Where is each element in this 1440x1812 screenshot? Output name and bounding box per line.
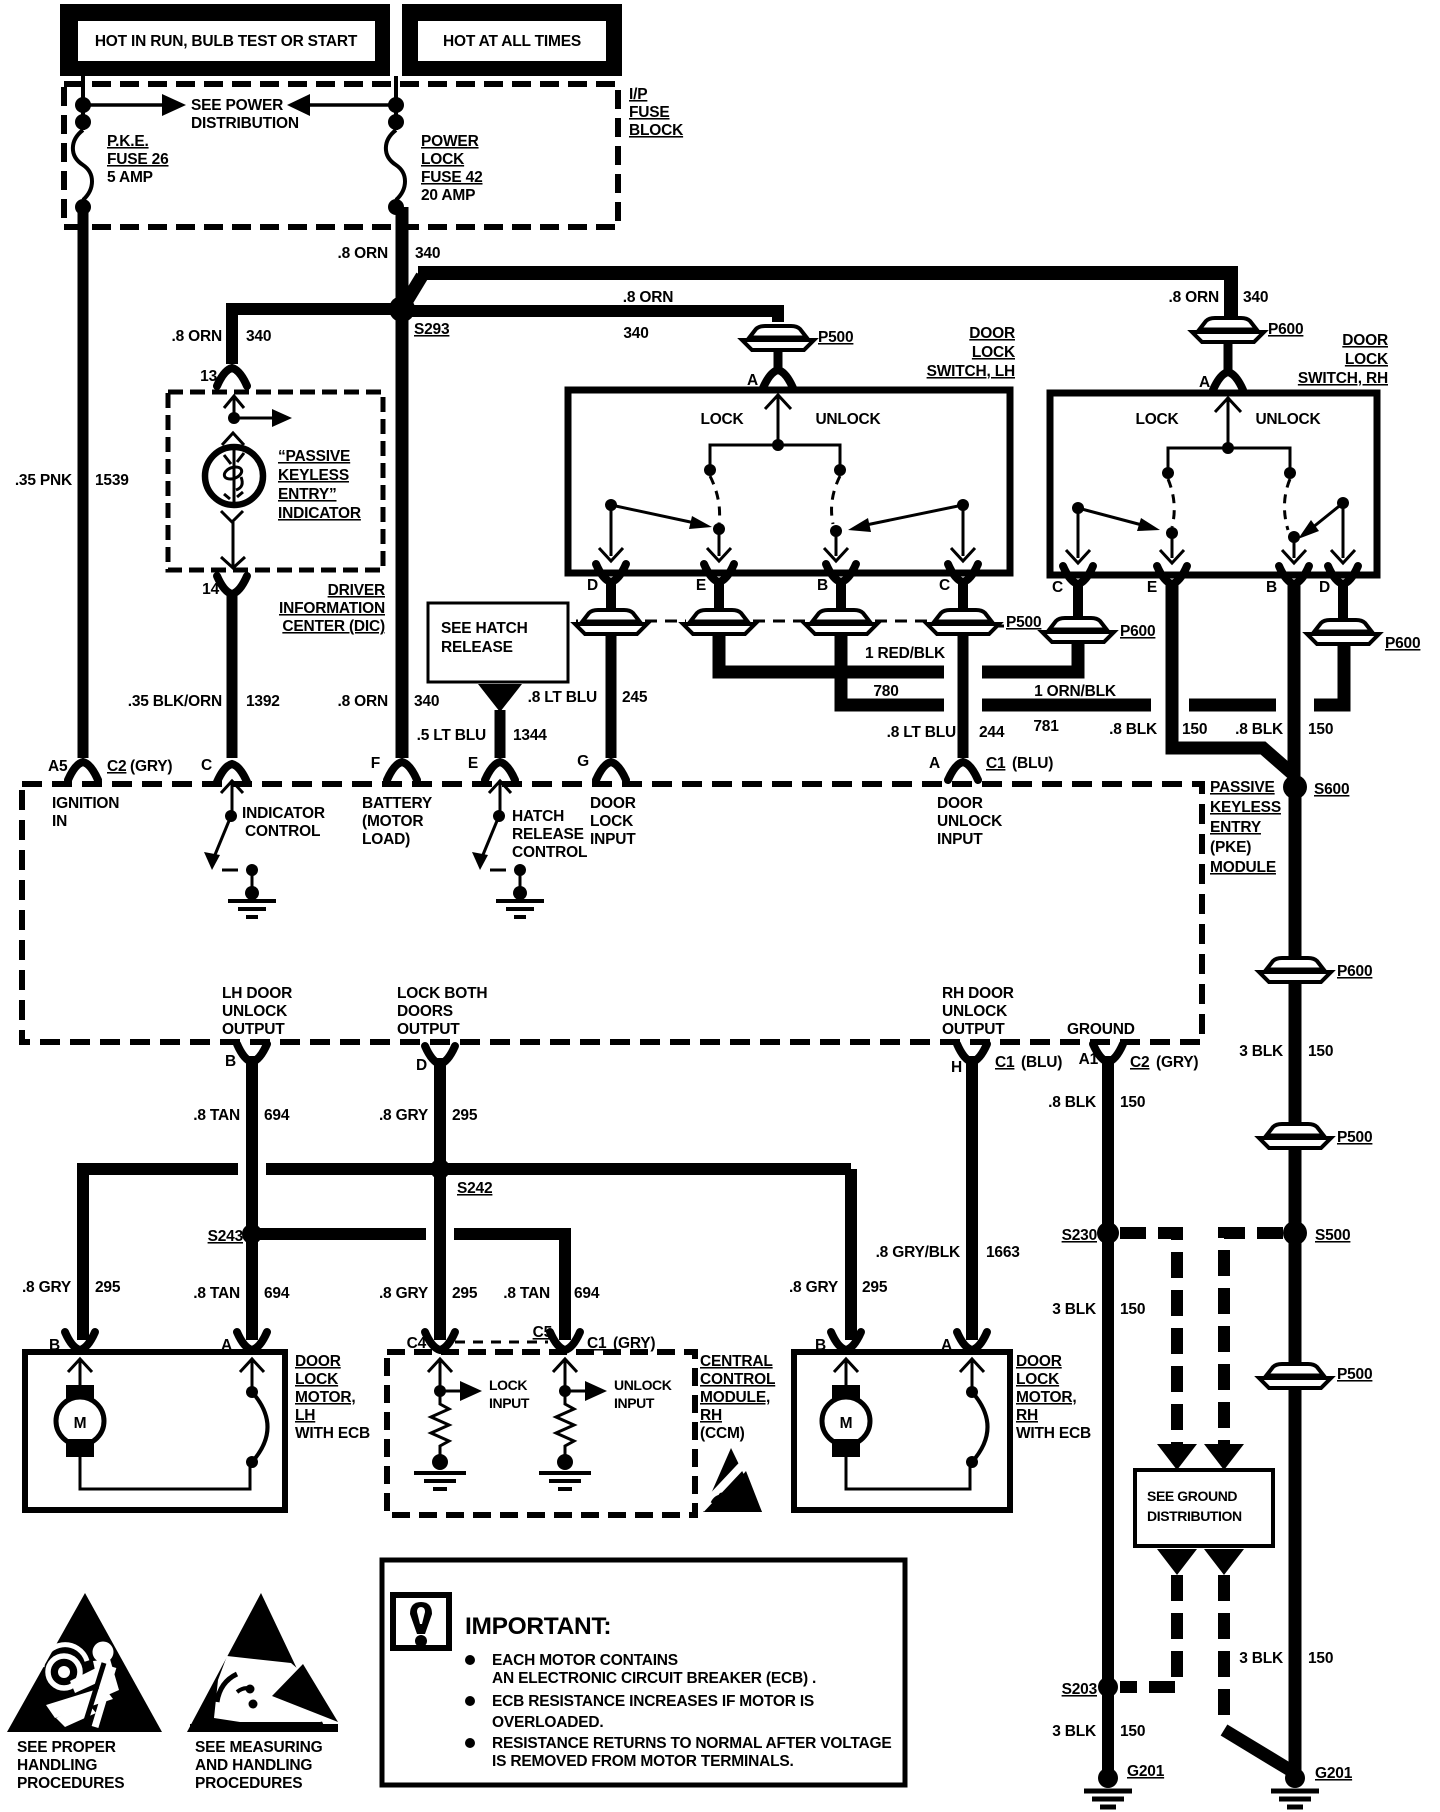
svg-text:B: B bbox=[815, 1337, 826, 1354]
contact dot lower lock RH bbox=[1166, 527, 1178, 539]
label .8 GRY 295 upper bbox=[379, 1107, 478, 1124]
label LOCK INPUT bbox=[489, 1377, 530, 1411]
header box HOT IN RUN bbox=[60, 4, 390, 76]
svg-text:.35 PNK: .35 PNK bbox=[15, 472, 73, 489]
wire C of LH down to PKE A (.8 LT BLU 244) bbox=[958, 632, 969, 758]
RH switch stem with up arrow bbox=[1215, 397, 1241, 448]
svg-text:.8 ORN: .8 ORN bbox=[338, 693, 388, 710]
svg-text:C: C bbox=[939, 577, 950, 594]
node dot bbox=[75, 114, 91, 130]
svg-text:S600: S600 bbox=[1314, 781, 1349, 798]
terminal A of LH motor bbox=[237, 1332, 267, 1350]
svg-text:IS REMOVED FROM MOTOR TERMINAL: IS REMOVED FROM MOTOR TERMINALS. bbox=[492, 1753, 794, 1770]
wire branch from S293 left to DIC terminal 13 bbox=[232, 309, 396, 364]
arrow from C node to lock contact RH bbox=[1078, 508, 1160, 531]
svg-text:.8 GRY: .8 GRY bbox=[22, 1279, 72, 1296]
svg-text:LOCK: LOCK bbox=[489, 1377, 527, 1393]
terminal B of LH switch bbox=[826, 564, 856, 582]
node dot C side RH bbox=[1072, 502, 1084, 514]
terminal B of RH motor bbox=[831, 1332, 861, 1350]
label DOOR LOCK MOTOR, RH WITH ECB bbox=[1016, 1353, 1091, 1442]
svg-text:13: 13 bbox=[200, 368, 217, 385]
svg-text:MOTOR,: MOTOR, bbox=[295, 1389, 356, 1406]
svg-text:INFORMATION: INFORMATION bbox=[279, 600, 385, 617]
svg-text:OVERLOADED.: OVERLOADED. bbox=[492, 1714, 603, 1731]
svg-text:.8 TAN: .8 TAN bbox=[503, 1285, 550, 1302]
label CENTRAL CONTROL MODULE, RH (CCM) bbox=[700, 1353, 775, 1442]
label .5 LT BLU 1344 bbox=[417, 727, 548, 744]
svg-text:1344: 1344 bbox=[513, 727, 547, 744]
svg-text:DISTRIBUTION: DISTRIBUTION bbox=[191, 115, 299, 132]
IMPORTANT box bbox=[382, 1560, 905, 1785]
svg-text:ENTRY: ENTRY bbox=[1210, 819, 1262, 836]
wire E of LH to 780 run bbox=[719, 632, 944, 672]
svg-text:295: 295 bbox=[95, 1279, 121, 1296]
svg-text:M: M bbox=[840, 1415, 853, 1432]
label .8 ORN 340 above S293 bbox=[338, 245, 441, 262]
svg-text:RELEASE: RELEASE bbox=[441, 639, 513, 656]
svg-text:.8 BLK: .8 BLK bbox=[1048, 1094, 1097, 1111]
wire D RH to connector bbox=[1338, 582, 1348, 618]
svg-text:AND HANDLING: AND HANDLING bbox=[195, 1757, 312, 1774]
svg-text:5 AMP: 5 AMP bbox=[107, 169, 153, 186]
svg-text:694: 694 bbox=[574, 1285, 600, 1302]
terminal A of LH switch bbox=[763, 370, 793, 388]
wire H PKE down to RH motor A bbox=[966, 1056, 978, 1340]
label .8 ORN 340 left branch bbox=[172, 328, 272, 345]
node dot D side bbox=[605, 499, 617, 511]
svg-text:.8 ORN: .8 ORN bbox=[172, 328, 222, 345]
wire .8 ORN 340 from fuse 42 down to S293 bbox=[396, 207, 409, 313]
bullet 2 bbox=[465, 1696, 475, 1706]
svg-text:A: A bbox=[221, 1337, 232, 1354]
ESD triangle measuring handling bbox=[187, 1593, 338, 1732]
label .8 GRY/BLK 1663 bbox=[876, 1244, 1021, 1261]
dashed blade lock bbox=[710, 476, 720, 524]
ground CCM lock bbox=[414, 1454, 466, 1489]
svg-text:CONTROL: CONTROL bbox=[512, 844, 587, 861]
ground internal at hatch release control bbox=[496, 886, 544, 917]
svg-text:(CCM): (CCM) bbox=[700, 1425, 745, 1442]
svg-text:F: F bbox=[371, 755, 380, 772]
terminal C5 of CCM bbox=[550, 1332, 580, 1350]
wire branch from S293 up-right to top run bbox=[402, 276, 422, 309]
svg-text:P500: P500 bbox=[1337, 1366, 1372, 1383]
contact dot lock bbox=[704, 464, 716, 476]
label BATTERY (MOTOR LOAD) bbox=[362, 795, 433, 848]
wire D node down with arrow bbox=[599, 505, 623, 561]
svg-text:.8 LT BLU: .8 LT BLU bbox=[887, 724, 956, 741]
arrow from D node to unlock contact RH bbox=[1298, 503, 1343, 539]
I/P fuse block dashed box bbox=[64, 84, 618, 227]
wire A1 ground down left chain bbox=[1102, 1056, 1114, 1778]
svg-text:3 BLK: 3 BLK bbox=[1052, 1301, 1097, 1318]
wire bulb to terminal 14 bbox=[232, 522, 235, 568]
svg-text:OUTPUT: OUTPUT bbox=[222, 1021, 285, 1038]
splice S243 bbox=[242, 1224, 262, 1244]
svg-text:E: E bbox=[696, 577, 706, 594]
svg-text:P500: P500 bbox=[1006, 614, 1041, 631]
svg-text:.8 ORN: .8 ORN bbox=[1169, 289, 1219, 306]
wire 780 run right segment to RH C bbox=[982, 644, 1078, 672]
dashed blade unlock bbox=[832, 476, 840, 524]
svg-text:C2: C2 bbox=[1130, 1054, 1149, 1071]
svg-text:SEE MEASURING: SEE MEASURING bbox=[195, 1739, 323, 1756]
svg-text:14: 14 bbox=[202, 581, 219, 598]
RH door lock switch box bbox=[1050, 393, 1377, 575]
terminal A of RH motor bbox=[957, 1332, 987, 1350]
svg-text:B: B bbox=[225, 1053, 236, 1070]
terminal C4 of CCM bbox=[425, 1332, 455, 1350]
svg-text:295: 295 bbox=[452, 1107, 478, 1124]
svg-text:295: 295 bbox=[862, 1279, 888, 1296]
terminal D of PKE bottom bbox=[425, 1046, 455, 1064]
svg-text:245: 245 bbox=[622, 689, 648, 706]
terminal C of RH switch bbox=[1063, 566, 1093, 584]
svg-text:LOCK: LOCK bbox=[295, 1371, 339, 1388]
wire C node down with arrow bbox=[951, 505, 975, 561]
arrow to SEE POWER DISTRIBUTION left bbox=[287, 94, 396, 116]
chevron at 14 bbox=[221, 557, 245, 568]
svg-text:PROCEDURES: PROCEDURES bbox=[17, 1775, 124, 1792]
label A1 C2 (GRY) bbox=[1079, 1051, 1199, 1071]
wire E to connector bbox=[714, 580, 724, 608]
svg-text:P600: P600 bbox=[1337, 963, 1372, 980]
svg-text:DOOR: DOOR bbox=[295, 1353, 341, 1370]
splice S500 bbox=[1283, 1221, 1307, 1245]
label DOOR UNLOCK INPUT bbox=[937, 795, 1003, 848]
svg-text:3 BLK: 3 BLK bbox=[1239, 1650, 1284, 1667]
svg-text:EACH MOTOR CONTAINS: EACH MOTOR CONTAINS bbox=[492, 1652, 678, 1669]
svg-text:P.K.E.: P.K.E. bbox=[107, 133, 149, 150]
svg-text:PROCEDURES: PROCEDURES bbox=[195, 1775, 302, 1792]
svg-text:B: B bbox=[49, 1337, 60, 1354]
svg-text:H: H bbox=[951, 1059, 962, 1076]
svg-text:RH: RH bbox=[1016, 1407, 1038, 1424]
svg-text:INPUT: INPUT bbox=[614, 1395, 655, 1411]
arrow from D node to lock contact bbox=[611, 505, 712, 529]
svg-text:I/P: I/P bbox=[629, 86, 647, 103]
svg-text:MODULE,: MODULE, bbox=[700, 1389, 770, 1406]
splice S600 bbox=[1283, 775, 1307, 799]
label 3 BLK 150 lower bbox=[1239, 1650, 1333, 1667]
wire top .8 ORN run to right bbox=[418, 273, 1231, 318]
wire 781 run middle segment bbox=[982, 699, 1151, 712]
fuse 42 symbol bbox=[386, 130, 405, 200]
svg-text:E: E bbox=[468, 755, 478, 772]
svg-text:DRIVER: DRIVER bbox=[328, 582, 385, 599]
svg-text:HOT AT ALL TIMES: HOT AT ALL TIMES bbox=[443, 33, 581, 50]
label LH DOOR UNLOCK OUTPUT bbox=[222, 985, 292, 1038]
dashed harness line between connectors bbox=[576, 620, 930, 623]
terminal 13 of DIC bbox=[217, 368, 247, 386]
RH motor internals bbox=[822, 1359, 970, 1489]
important icon bbox=[393, 1595, 449, 1648]
ESD triangle proper handling bbox=[7, 1593, 162, 1732]
label SEE MEASURING AND HANDLING PROCEDURES bbox=[195, 1739, 323, 1792]
svg-text:D: D bbox=[1319, 579, 1330, 596]
svg-text:C: C bbox=[1052, 579, 1063, 596]
svg-text:(MOTOR: (MOTOR bbox=[362, 813, 423, 830]
wire B RH down to S600 (.8 BLK 150) bbox=[1288, 582, 1301, 787]
svg-text:G: G bbox=[577, 753, 589, 770]
svg-text:GROUND: GROUND bbox=[1067, 1021, 1135, 1038]
terminal G of PKE bbox=[596, 762, 626, 780]
svg-text:ECB RESISTANCE INCREASES IF MO: ECB RESISTANCE INCREASES IF MOTOR IS bbox=[492, 1693, 814, 1710]
label H C1 (BLU) bbox=[951, 1054, 1062, 1076]
label SEE POWER DISTRIBUTION bbox=[191, 97, 299, 132]
svg-text:INDICATOR: INDICATOR bbox=[278, 505, 361, 522]
ground G201 left bbox=[1084, 1768, 1132, 1807]
bullet 3 text bbox=[492, 1735, 892, 1770]
svg-text:CENTRAL: CENTRAL bbox=[700, 1353, 773, 1370]
svg-text:DOOR: DOOR bbox=[937, 795, 983, 812]
connector P600 on C RH bbox=[1042, 618, 1114, 642]
svg-text:UNLOCK: UNLOCK bbox=[222, 1003, 288, 1020]
label 3 BLK 150 bottom bbox=[1052, 1723, 1145, 1740]
svg-text:UNLOCK: UNLOCK bbox=[815, 411, 881, 428]
svg-text:694: 694 bbox=[264, 1285, 290, 1302]
node dot bbox=[388, 97, 404, 113]
svg-text:DOOR: DOOR bbox=[1016, 1353, 1062, 1370]
svg-text:295: 295 bbox=[452, 1285, 478, 1302]
svg-text:LOCK: LOCK bbox=[1345, 351, 1389, 368]
chevron below bulb bbox=[221, 511, 243, 522]
svg-text:LOCK: LOCK bbox=[700, 411, 744, 428]
svg-text:PASSIVE: PASSIVE bbox=[1210, 779, 1275, 796]
terminal H of PKE bottom bbox=[957, 1044, 987, 1062]
wire hatch release to PKE E bbox=[495, 710, 506, 758]
svg-text:P600: P600 bbox=[1120, 623, 1155, 640]
LH door lock motor box bbox=[25, 1352, 285, 1510]
svg-text:S293: S293 bbox=[414, 321, 450, 338]
arrow into ground distribution left bbox=[1157, 1444, 1197, 1470]
svg-text:E: E bbox=[1147, 579, 1157, 596]
svg-text:A: A bbox=[929, 755, 940, 772]
svg-text:(GRY): (GRY) bbox=[613, 1335, 655, 1352]
svg-text:FUSE 42: FUSE 42 bbox=[421, 169, 483, 186]
terminal E of RH switch bbox=[1157, 566, 1187, 584]
svg-text:D: D bbox=[416, 1057, 427, 1074]
splice S242 bbox=[430, 1159, 450, 1179]
dashed link C4 to C5 bbox=[455, 1341, 548, 1344]
arrow out of ground distribution left bbox=[1157, 1549, 1197, 1575]
wire 781 run right segment to RH D bbox=[1314, 646, 1344, 705]
contact dot lower unlock RH bbox=[1288, 531, 1300, 543]
label DOOR LOCK SWITCH, RH bbox=[1298, 332, 1389, 387]
svg-text:LOCK BOTH: LOCK BOTH bbox=[397, 985, 487, 1002]
arrow SEE POWER DISTRIBUTION right bbox=[83, 94, 186, 116]
S242 run right drop to RH motor B bbox=[845, 1169, 857, 1340]
arrow right from indicator node bbox=[234, 409, 292, 427]
SEE GROUND DISTRIBUTION box bbox=[1135, 1470, 1273, 1546]
wire B PKE down to S243 and LH motor A bbox=[246, 1056, 258, 1340]
svg-text:SEE POWER: SEE POWER bbox=[191, 97, 283, 114]
wire D PKE down to CCM C4 bbox=[434, 1058, 446, 1340]
wire .35 PNK from fuse 26 down to PKE A5 bbox=[78, 207, 89, 758]
svg-text:DOORS: DOORS bbox=[397, 1003, 453, 1020]
LH motor internals bbox=[56, 1359, 250, 1489]
label HATCH RELEASE CONTROL bbox=[512, 808, 587, 861]
svg-text:.8 ORN: .8 ORN bbox=[338, 245, 388, 262]
svg-text:IN: IN bbox=[52, 813, 67, 830]
svg-text:340: 340 bbox=[623, 325, 648, 342]
label DOOR LOCK MOTOR, LH WITH ECB bbox=[295, 1353, 370, 1442]
svg-text:LH DOOR: LH DOOR bbox=[222, 985, 292, 1002]
svg-text:G201: G201 bbox=[1127, 1763, 1165, 1780]
svg-text:CONTROL: CONTROL bbox=[700, 1371, 775, 1388]
svg-text:S230: S230 bbox=[1062, 1227, 1097, 1244]
svg-text:KEYLESS: KEYLESS bbox=[1210, 799, 1281, 816]
terminal A of PKE bbox=[948, 762, 978, 780]
svg-text:P500: P500 bbox=[1337, 1129, 1372, 1146]
svg-text:LH: LH bbox=[295, 1407, 315, 1424]
wire P600 to RH switch A bbox=[1224, 342, 1233, 372]
svg-text:ENTRY”: ENTRY” bbox=[278, 486, 337, 503]
label 3 BLK 150 bbox=[1052, 1301, 1145, 1318]
svg-text:HATCH: HATCH bbox=[512, 808, 564, 825]
svg-text:1539: 1539 bbox=[95, 472, 129, 489]
wire C RH to connector bbox=[1073, 582, 1083, 616]
svg-text:INDICATOR: INDICATOR bbox=[242, 805, 325, 822]
svg-text:KEYLESS: KEYLESS bbox=[278, 467, 349, 484]
label SEE GROUND DISTRIBUTION bbox=[1147, 1488, 1242, 1524]
svg-text:P600: P600 bbox=[1385, 635, 1420, 652]
node dot bbox=[388, 114, 404, 130]
wire C to connector bbox=[958, 580, 968, 608]
svg-text:C1: C1 bbox=[587, 1335, 607, 1352]
svg-text:INPUT: INPUT bbox=[937, 831, 983, 848]
node dot indicator control bbox=[228, 412, 240, 424]
svg-text:C4: C4 bbox=[407, 1335, 427, 1352]
label A C1 (BLU) bbox=[929, 755, 1053, 772]
ESD triangle small at CCM bbox=[701, 1448, 762, 1512]
terminal B of LH motor bbox=[65, 1332, 95, 1350]
svg-text:C1: C1 bbox=[986, 755, 1006, 772]
svg-text:.8 ORN: .8 ORN bbox=[623, 289, 673, 306]
connector P500 on E bbox=[683, 610, 755, 634]
svg-text:CONTROL: CONTROL bbox=[245, 823, 320, 840]
terminal E of PKE bbox=[485, 762, 515, 780]
connector P500 on D bbox=[575, 610, 647, 634]
label .8 GRY 295 right motor bbox=[789, 1279, 888, 1296]
svg-text:LOCK: LOCK bbox=[421, 151, 465, 168]
svg-text:S243: S243 bbox=[208, 1228, 244, 1245]
svg-text:P500: P500 bbox=[818, 329, 853, 346]
svg-text:.8 GRY/BLK: .8 GRY/BLK bbox=[876, 1244, 961, 1261]
CCM unlock input branch bbox=[553, 1359, 607, 1401]
bullet 1 bbox=[465, 1655, 475, 1665]
terminal C of PKE bbox=[217, 764, 247, 782]
svg-text:(GRY): (GRY) bbox=[130, 758, 172, 775]
terminal A1 of PKE bottom bbox=[1093, 1044, 1123, 1062]
svg-text:.8 BLK: .8 BLK bbox=[1109, 721, 1158, 738]
label .8 LT BLU 245 bbox=[528, 689, 648, 706]
svg-text:FUSE: FUSE bbox=[629, 104, 670, 121]
svg-text:IMPORTANT:: IMPORTANT: bbox=[465, 1613, 611, 1640]
label .35 BLK/ORN 1392 bbox=[128, 693, 280, 710]
svg-text:RH: RH bbox=[700, 1407, 722, 1424]
terminal A5 of PKE bbox=[68, 762, 98, 780]
label .8 ORN 340 at F bbox=[338, 693, 440, 710]
svg-text:S203: S203 bbox=[1062, 1681, 1098, 1698]
bullet 1 text bbox=[492, 1652, 816, 1687]
svg-text:.8 TAN: .8 TAN bbox=[193, 1107, 240, 1124]
svg-text:.8 GRY: .8 GRY bbox=[789, 1279, 839, 1296]
indicator bulb PKE bbox=[205, 447, 263, 505]
label PASSIVE KEYLESS ENTRY INDICATOR bbox=[278, 448, 361, 522]
POWER LOCK FUSE 42 label bbox=[421, 133, 483, 204]
terminal A of RH switch bbox=[1213, 372, 1243, 390]
svg-text:780: 780 bbox=[873, 683, 898, 700]
svg-text:A: A bbox=[941, 1337, 952, 1354]
CCM dashed box bbox=[387, 1352, 695, 1515]
svg-text:BLOCK: BLOCK bbox=[629, 122, 684, 139]
label PASSIVE KEYLESS ENTRY (PKE) MODULE bbox=[1205, 776, 1281, 876]
wire P500 to LH switch A bbox=[774, 350, 783, 370]
svg-text:A: A bbox=[1199, 374, 1210, 391]
svg-text:MOTOR,: MOTOR, bbox=[1016, 1389, 1077, 1406]
svg-text:(PKE): (PKE) bbox=[1210, 839, 1251, 856]
svg-text:.8 TAN: .8 TAN bbox=[193, 1285, 240, 1302]
RH door lock motor box bbox=[794, 1352, 1010, 1510]
svg-text:DOOR: DOOR bbox=[1342, 332, 1388, 349]
svg-text:DOOR: DOOR bbox=[590, 795, 636, 812]
ground internal at indicator control bbox=[228, 886, 276, 917]
label .8 TAN 694 lower bbox=[193, 1285, 290, 1302]
label SEE PROPER HANDLING PROCEDURES bbox=[17, 1739, 124, 1792]
connector P500 top LH bbox=[742, 326, 814, 350]
svg-text:POWER: POWER bbox=[421, 133, 479, 150]
svg-text:S500: S500 bbox=[1315, 1227, 1350, 1244]
connector P600 right chain bbox=[1259, 958, 1331, 982]
svg-text:LOCK: LOCK bbox=[1135, 411, 1179, 428]
svg-text:HANDLING: HANDLING bbox=[17, 1757, 97, 1774]
wire B to connector bbox=[836, 580, 846, 608]
bullet 3 bbox=[465, 1738, 475, 1748]
splice S293 bbox=[389, 296, 415, 322]
label .8 LT BLU 244 bbox=[887, 724, 1005, 741]
PKE module dashed box bbox=[22, 784, 1202, 1042]
svg-text:150: 150 bbox=[1120, 1094, 1145, 1111]
svg-text:DISTRIBUTION: DISTRIBUTION bbox=[1147, 1508, 1242, 1524]
wire D node down with arrow RH bbox=[1331, 503, 1355, 563]
wire unlock contact down with arrow bbox=[824, 531, 848, 561]
svg-text:P600: P600 bbox=[1268, 321, 1303, 338]
label C1 (GRY) bbox=[587, 1335, 655, 1352]
svg-text:B: B bbox=[1266, 579, 1277, 596]
P.K.E. FUSE 26 label bbox=[107, 133, 169, 186]
svg-text:HOT IN RUN, BULB TEST OR START: HOT IN RUN, BULB TEST OR START bbox=[95, 33, 358, 50]
wire D of LH switch down to PKE G (.8 LT BLU 245) bbox=[606, 632, 617, 758]
label .8 TAN 694 upper bbox=[193, 1107, 290, 1124]
ground CCM unlock bbox=[539, 1454, 591, 1489]
dashed blade unlock RH bbox=[1284, 479, 1290, 530]
wire from HOT IN RUN into fuse block bbox=[81, 76, 85, 130]
svg-text:UNLOCK: UNLOCK bbox=[1255, 411, 1321, 428]
svg-text:.35 BLK/ORN: .35 BLK/ORN bbox=[128, 693, 222, 710]
terminal D of LH switch bbox=[596, 564, 626, 582]
wire B of LH to 781 run bbox=[841, 632, 944, 705]
arrow out of ground distribution right bbox=[1204, 1549, 1244, 1575]
svg-text:340: 340 bbox=[415, 245, 440, 262]
label IGNITION IN bbox=[52, 795, 119, 830]
LH switch bar bbox=[710, 445, 840, 467]
label INDICATOR CONTROL bbox=[242, 805, 325, 840]
label DOOR LOCK INPUT bbox=[590, 795, 636, 848]
label DRIVER INFORMATION CENTER (DIC) bbox=[279, 582, 385, 635]
terminal F of PKE bbox=[387, 762, 417, 780]
